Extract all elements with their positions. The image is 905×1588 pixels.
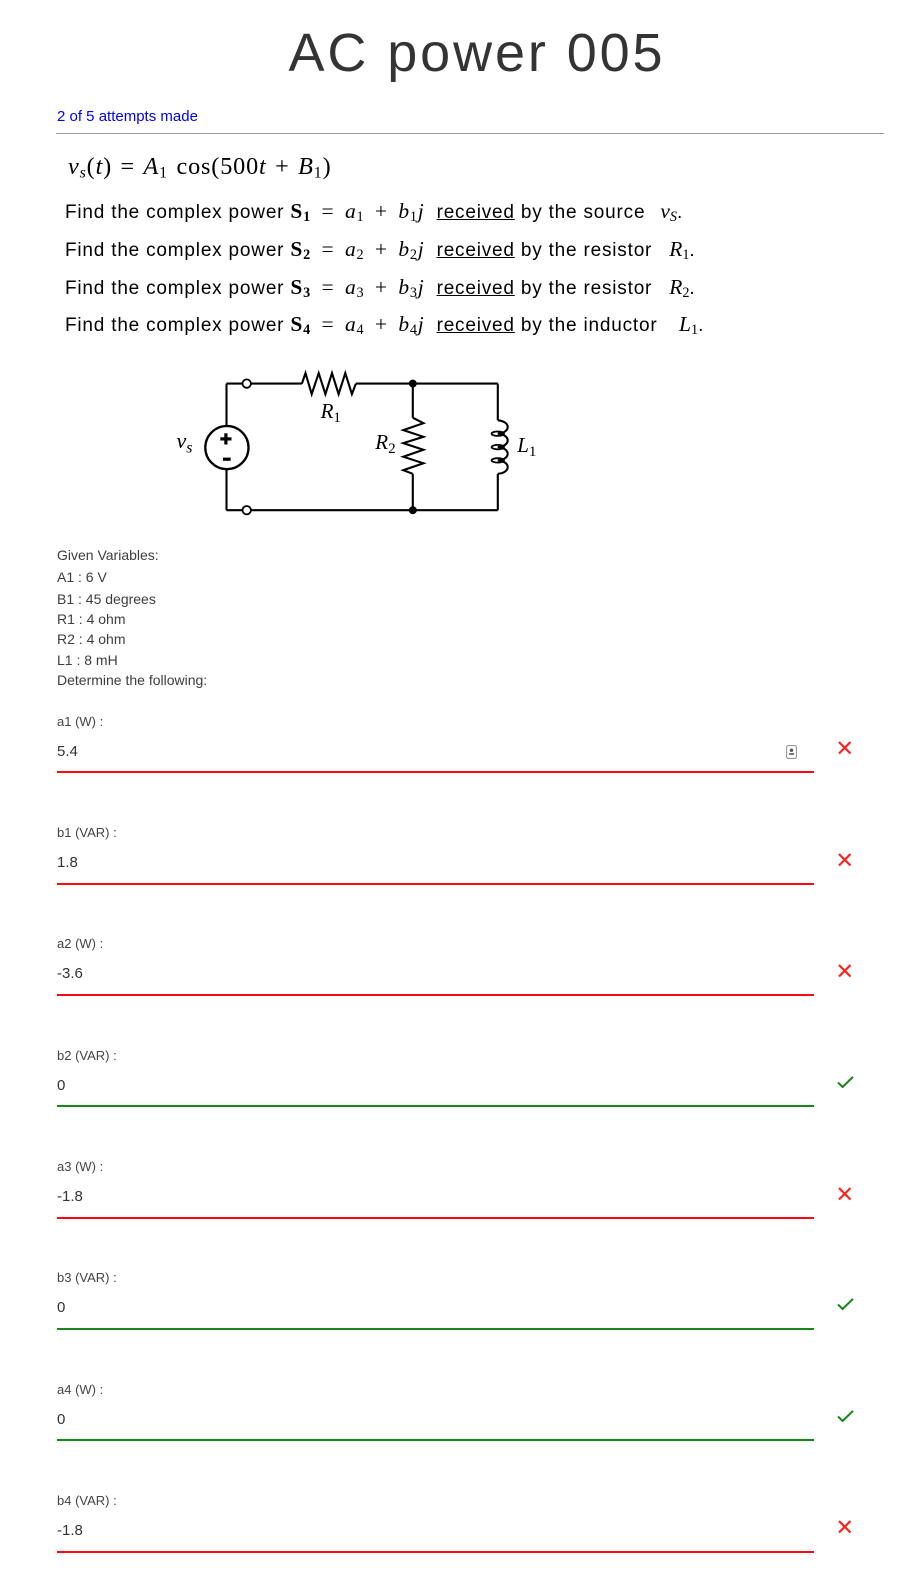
- wire below R2: [412, 474, 414, 510]
- find line 1: [65, 202, 683, 222]
- resistor R1: [302, 373, 356, 394]
- field a1: [57, 715, 103, 728]
- terminal top (open circle): [243, 379, 251, 387]
- wire bottom horizontal: [227, 509, 498, 511]
- find line 3: [65, 278, 696, 298]
- given variables: [57, 548, 159, 562]
- field a4: [57, 1383, 103, 1396]
- field b2: [57, 1049, 117, 1062]
- field b3: [57, 1271, 117, 1284]
- resistor R2: [403, 418, 423, 474]
- field b4: [57, 1494, 117, 1507]
- wire top-right horizontal: [356, 383, 498, 385]
- label R2: [375, 432, 395, 453]
- title: [62, 26, 892, 80]
- rule: [56, 133, 884, 134]
- wire middle vertical (R2 branch): [412, 384, 414, 418]
- wire left vertical: [225, 384, 227, 511]
- inductor L1: [492, 420, 508, 474]
- terminal bottom (open circle): [243, 506, 251, 514]
- voltage source VS: [205, 426, 248, 469]
- find line 2: [65, 240, 696, 260]
- node A (top junction): [409, 380, 417, 388]
- find line 4: [65, 315, 704, 335]
- field b1: [57, 826, 117, 839]
- field a3: [57, 1160, 103, 1173]
- field a2: [57, 937, 103, 950]
- wire below L1: [497, 474, 499, 510]
- wire top-left horizontal: [227, 383, 302, 385]
- label L1: [517, 435, 536, 456]
- autofill icon: [786, 745, 797, 759]
- math equation line: [68, 155, 332, 179]
- circuit schematic: [160, 360, 550, 525]
- attempts link: [57, 109, 198, 124]
- label R1: [321, 401, 341, 422]
- node B (bottom junction): [409, 506, 417, 514]
- label vs: [177, 430, 193, 452]
- wire right vertical above L1: [497, 384, 499, 421]
